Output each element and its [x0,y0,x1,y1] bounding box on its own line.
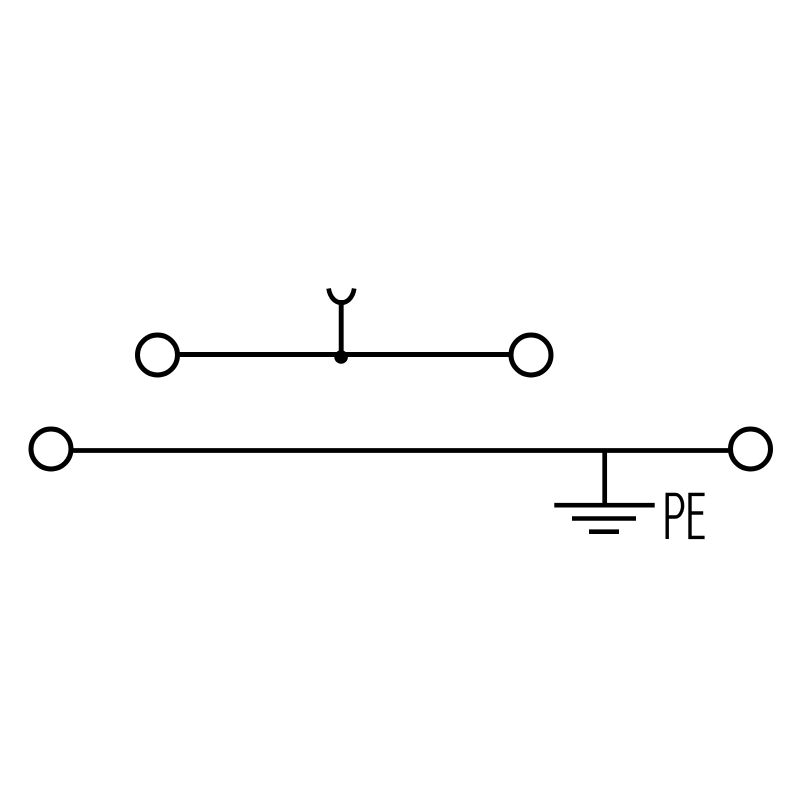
socket fork contact symbol (plug-in tap) [329,289,355,303]
junction dot on upper wire [334,350,348,364]
net label PE: letter E [690,494,705,537]
terminal circle: upper-left clamp contact [138,335,178,375]
ground earth symbol: middle bar [572,516,636,521]
ground earth symbol: top bar [554,503,654,508]
wire: lower through conductor [71,448,731,453]
wire: fork stem [339,300,344,357]
terminal circle: upper-right clamp contact [511,335,551,375]
terminal circle: lower-left clamp contact [31,429,71,469]
ground earth symbol: bottom bar [589,529,619,534]
net label PE: letter P [667,494,682,539]
wire: ground stem [602,449,607,505]
terminal circle: lower-right clamp contact [731,429,771,469]
wire: upper jumper conductor [178,352,510,357]
